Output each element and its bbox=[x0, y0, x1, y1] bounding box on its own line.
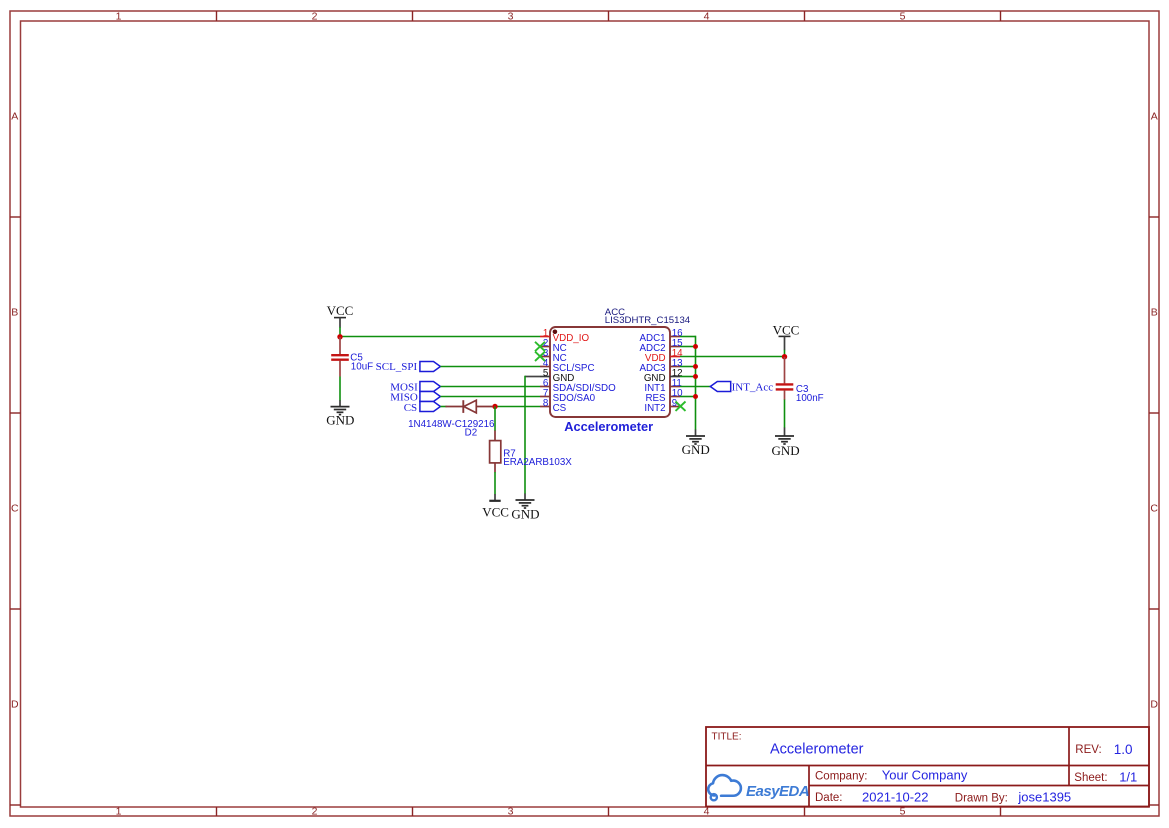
value label 1N4148W-C129216 / D2 bbox=[408, 419, 495, 439]
svg-text:1/1: 1/1 bbox=[1119, 770, 1137, 785]
wire VCC to U1 pin 1 (VDD_IO) bbox=[340, 336, 540, 338]
pin 7 SDO/SA0 (left) bbox=[540, 388, 596, 404]
capacitor C3 bbox=[776, 357, 794, 400]
junction node pin 15 bbox=[693, 344, 698, 349]
pin 3 NC (left) bbox=[540, 348, 567, 364]
pin 8 CS (left) bbox=[540, 398, 567, 414]
net flag MOSI bbox=[390, 381, 440, 393]
capacitor C5 bbox=[331, 337, 349, 377]
value label C3 / 100nF bbox=[796, 384, 824, 404]
svg-text:2: 2 bbox=[312, 806, 318, 818]
net flag MISO bbox=[390, 391, 440, 403]
junction node pin 12 bbox=[693, 374, 698, 379]
power flag VCC (bottom of R7) bbox=[482, 494, 509, 520]
svg-text:D: D bbox=[1150, 699, 1158, 711]
power flag VCC (right) bbox=[773, 323, 800, 351]
svg-text:Company:: Company: bbox=[815, 770, 867, 782]
svg-text:A: A bbox=[11, 111, 18, 123]
component name Accelerometer bbox=[564, 419, 653, 434]
junction node pin 10 bbox=[693, 394, 698, 399]
junction node VDD / C3 bbox=[782, 354, 787, 359]
svg-text:D: D bbox=[11, 699, 19, 711]
svg-text:3: 3 bbox=[508, 806, 514, 818]
svg-text:EasyEDA: EasyEDA bbox=[746, 783, 809, 800]
svg-text:2: 2 bbox=[312, 11, 318, 23]
junction node at VCC / C5 bbox=[337, 334, 342, 339]
pin 11 INT1 (right) bbox=[644, 378, 682, 394]
wire junction to R7 bbox=[494, 407, 496, 432]
svg-text:jose1395: jose1395 bbox=[1017, 790, 1071, 805]
wire SCL_SPI to U1 pin 4 (SCL/SPC) bbox=[440, 366, 540, 368]
pin 2 NC (left) bbox=[540, 338, 567, 354]
ground GND (bus) bbox=[682, 430, 710, 458]
ground GND (under C3) bbox=[772, 428, 800, 459]
wire CS flag to D2 bbox=[440, 406, 446, 408]
svg-text:1N4148W-C129216: 1N4148W-C129216 bbox=[408, 419, 495, 430]
ground GND (bottom, pin 5) bbox=[511, 494, 539, 522]
svg-text:5: 5 bbox=[900, 11, 906, 23]
svg-text:Accelerometer: Accelerometer bbox=[770, 742, 864, 758]
wire VCC stem to junction bbox=[339, 327, 341, 337]
svg-text:D2: D2 bbox=[465, 427, 478, 438]
pin 4 SCL/SPC (left) bbox=[540, 358, 595, 374]
pin 5 GND (left) bbox=[540, 368, 574, 384]
svg-text:1.0: 1.0 bbox=[1114, 742, 1133, 757]
pin 10 RES (right) bbox=[645, 388, 683, 404]
svg-text:C: C bbox=[11, 503, 19, 515]
svg-text:A: A bbox=[1151, 111, 1158, 123]
wire C3 to GND bbox=[784, 400, 786, 428]
svg-text:1: 1 bbox=[116, 11, 122, 23]
wire pin 13 ADC3 to bus bbox=[680, 366, 696, 368]
svg-text:INT2: INT2 bbox=[644, 403, 665, 414]
svg-text:VCC: VCC bbox=[327, 303, 354, 318]
no-connect cross pin 9 INT2 bbox=[676, 402, 686, 411]
pin 13 ADC3 (right) bbox=[639, 358, 683, 374]
wire U1 pin 5 (GND) horizontal bbox=[525, 376, 540, 378]
svg-text:10uF: 10uF bbox=[351, 362, 373, 373]
pin 1 VDD_IO (left) bbox=[540, 328, 589, 344]
resistor R7 bbox=[490, 431, 501, 473]
svg-text:ERA2ARB103X: ERA2ARB103X bbox=[503, 457, 572, 468]
pin 14 VDD (right) bbox=[645, 348, 683, 364]
wire bus vertical to GND bbox=[695, 336, 697, 430]
svg-text:VCC: VCC bbox=[482, 505, 509, 520]
svg-text:REV:: REV: bbox=[1075, 744, 1101, 756]
svg-text:GND: GND bbox=[511, 507, 539, 522]
svg-text:CS: CS bbox=[404, 402, 417, 414]
net flag INT_Acc bbox=[710, 381, 773, 393]
no-connect cross pin 2 bbox=[535, 342, 545, 351]
svg-text:1: 1 bbox=[116, 806, 122, 818]
designator ACC / LIS3DHTR_C15134 bbox=[605, 307, 691, 326]
value label C5 bbox=[350, 353, 373, 373]
junction node at D2 / R7 bbox=[492, 404, 497, 409]
wire D2 to U1 pin 8 (CS) bbox=[497, 406, 540, 408]
wire pin 14 VDD to VCC bbox=[680, 356, 785, 358]
value label R7 / ERA2ARB103X bbox=[503, 448, 572, 468]
wire pin 10 RES to bus bbox=[680, 396, 696, 398]
svg-text:Your Company: Your Company bbox=[882, 768, 968, 783]
svg-text:SCL_SPI: SCL_SPI bbox=[376, 361, 418, 373]
svg-text:Sheet:: Sheet: bbox=[1074, 772, 1107, 784]
wire MOSI to U1 pin 6 (SDA/SDI/SDO) bbox=[440, 386, 540, 388]
pin 12 GND (right) bbox=[644, 368, 683, 384]
svg-text:VCC: VCC bbox=[773, 323, 800, 338]
svg-text:GND: GND bbox=[772, 443, 800, 458]
pin 16 ADC1 (right) bbox=[639, 328, 683, 344]
svg-text:B: B bbox=[1151, 307, 1158, 319]
svg-text:GND: GND bbox=[326, 413, 354, 428]
svg-text:CS: CS bbox=[553, 403, 567, 414]
op IC U1 ACC LIS3DHTR_C15134 body bbox=[550, 327, 670, 417]
svg-text:3: 3 bbox=[508, 11, 514, 23]
wire pin 12 GND to bus bbox=[680, 376, 696, 378]
svg-text:100nF: 100nF bbox=[796, 393, 824, 404]
wire VCC stem to junction bbox=[784, 350, 786, 357]
svg-text:INT_Acc: INT_Acc bbox=[732, 381, 774, 393]
wire C5 to GND bbox=[339, 377, 341, 401]
svg-text:4: 4 bbox=[704, 11, 710, 23]
svg-text:LIS3DHTR_C15134: LIS3DHTR_C15134 bbox=[605, 315, 691, 326]
svg-text:GND: GND bbox=[682, 442, 710, 457]
pin 6 SDA/SDI/SDO (left) bbox=[540, 378, 616, 394]
net flag CS bbox=[404, 402, 441, 414]
wire pin 5 down to GND bbox=[524, 376, 526, 494]
net flag SCL_SPI bbox=[376, 361, 441, 373]
svg-text:Date:: Date: bbox=[815, 792, 843, 804]
svg-text:B: B bbox=[11, 307, 18, 319]
junction node pin 13 bbox=[693, 364, 698, 369]
no-connect cross pin 3 bbox=[535, 352, 545, 361]
svg-text:2021-10-22: 2021-10-22 bbox=[862, 790, 929, 805]
svg-text:TITLE:: TITLE: bbox=[712, 732, 742, 743]
diode D2 bbox=[446, 400, 493, 413]
svg-text:Accelerometer: Accelerometer bbox=[564, 419, 653, 434]
svg-text:C: C bbox=[1150, 503, 1158, 515]
ground GND (left, under C5) bbox=[326, 400, 354, 427]
svg-text:8: 8 bbox=[543, 398, 549, 409]
wire pin 11 INT1 to INT_Acc bbox=[680, 386, 711, 388]
title block bbox=[706, 727, 1149, 807]
wire MISO to U1 pin 7 (SDO/SA0) bbox=[440, 396, 540, 398]
wire pin 15 ADC2 to bus bbox=[680, 346, 696, 348]
pin 15 ADC2 (right) bbox=[639, 338, 683, 354]
pin 9 INT2 (right) bbox=[644, 398, 680, 414]
power flag VCC (left) bbox=[327, 303, 354, 327]
EasyEDA logo bbox=[708, 775, 809, 800]
svg-text:Drawn By:: Drawn By: bbox=[955, 792, 1008, 804]
wire pin 16 ADC1 to bus bbox=[680, 336, 696, 338]
wire R7 to VCC (bottom) bbox=[494, 472, 496, 494]
